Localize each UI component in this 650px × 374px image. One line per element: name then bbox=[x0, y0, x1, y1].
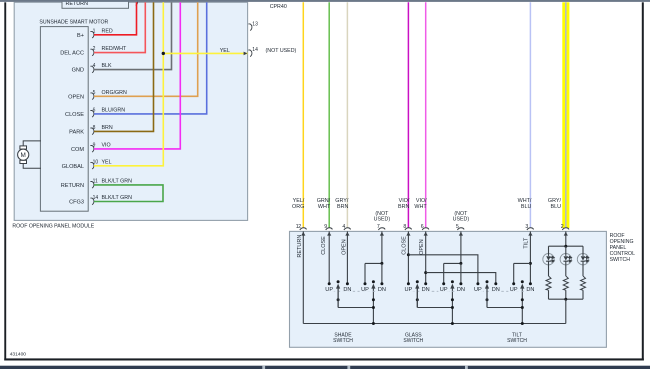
pin bracket pin 11 bbox=[90, 182, 94, 189]
pin 6 entry arrow bbox=[424, 232, 428, 236]
pin bracket switch pin 7 bbox=[378, 228, 385, 230]
wire ORG/GRN pin 5 bbox=[94, 2, 198, 96]
node shade bar junction bbox=[372, 306, 375, 309]
led top rail bbox=[549, 245, 584, 247]
svg-text:USED): USED) bbox=[453, 216, 470, 222]
svg-text:13: 13 bbox=[252, 21, 258, 27]
svg-text:RED: RED bbox=[102, 28, 113, 34]
page border bottom bbox=[4, 358, 644, 360]
svg-text:DN: DN bbox=[378, 287, 386, 293]
node tilt bar junction bbox=[521, 306, 524, 309]
svg-text:BLK/LT GRN: BLK/LT GRN bbox=[102, 178, 133, 184]
svg-text:GLOBAL: GLOBAL bbox=[62, 164, 84, 170]
wire glass UP2 riser bbox=[443, 263, 445, 283]
wire RED pin 1 bbox=[94, 2, 137, 35]
svg-text:M: M bbox=[21, 152, 26, 159]
svg-text:B+: B+ bbox=[77, 33, 84, 39]
svg-text:BLK: BLK bbox=[102, 63, 112, 69]
svg-text:UP: UP bbox=[510, 287, 518, 293]
svg-text:ORG/GRN: ORG/GRN bbox=[102, 90, 127, 96]
svg-text:COM: COM bbox=[71, 147, 84, 153]
contact label UP at x=408.4 bbox=[403, 286, 414, 292]
pin 4 entry arrow bbox=[345, 232, 349, 236]
wire BRN pin 8 bbox=[94, 2, 154, 131]
wire YEL pin 10 (GLOBAL) up bbox=[94, 2, 163, 166]
bottom bar separator at 465.0 bbox=[465, 366, 468, 369]
wire shade UP2 riser bbox=[364, 263, 366, 283]
svg-text:CLOSE: CLOSE bbox=[65, 112, 84, 118]
wire motor top to module bbox=[23, 141, 41, 146]
glass pole2 pole bottom dot bbox=[451, 298, 454, 301]
wire glass DN2 drop bbox=[460, 263, 462, 283]
tilt pole2 pole arm arrow bbox=[520, 284, 524, 289]
pin bracket switch pin 12 bbox=[300, 228, 307, 230]
wire GRN/WHT to switch pin 9 bbox=[328, 2, 330, 228]
svg-text:OPEN: OPEN bbox=[341, 239, 347, 255]
led bottom rail bbox=[549, 298, 584, 300]
svg-text:14: 14 bbox=[93, 195, 99, 201]
pin bracket switch pin 3 bbox=[527, 228, 534, 230]
svg-text:UP: UP bbox=[405, 287, 413, 293]
highlight on GRY/BLU wire bbox=[562, 2, 569, 228]
svg-text:DEL ACC: DEL ACC bbox=[60, 51, 84, 57]
svg-text:VIO: VIO bbox=[102, 142, 111, 148]
svg-text:RETURN: RETURN bbox=[61, 183, 84, 189]
glass pole1 UP contact dot bbox=[407, 282, 410, 285]
shade pole2 UP contact dot bbox=[364, 282, 367, 285]
pin 9 entry arrow bbox=[327, 232, 331, 236]
node led bottom junction bbox=[564, 298, 567, 301]
pin bracket switch pin 2 bbox=[562, 228, 569, 230]
pin bracket pin 14 CFG3 bbox=[90, 198, 94, 205]
svg-text:ROOF OPENING PANEL MODULE: ROOF OPENING PANEL MODULE bbox=[12, 223, 94, 229]
svg-text:PARK: PARK bbox=[69, 129, 84, 135]
resistor R2 bbox=[563, 276, 568, 290]
shade pole1 UP contact dot bbox=[328, 282, 331, 285]
tilt pole1 UP contact dot bbox=[476, 282, 479, 285]
contact label DN at x=347.4 bbox=[342, 286, 353, 292]
contact label DN at x=381.9 bbox=[377, 286, 388, 292]
wire glass pole1 to bar bbox=[416, 288, 418, 308]
shade pole1 pole bottom dot bbox=[337, 298, 340, 301]
svg-text:4: 4 bbox=[93, 63, 96, 69]
svg-text:2: 2 bbox=[93, 46, 96, 52]
glass mechanical linkage dashed bbox=[412, 290, 458, 292]
svg-text:10: 10 bbox=[93, 159, 99, 165]
resistor R1 bbox=[546, 276, 551, 290]
tilt pole1 pole pivot dot bbox=[486, 280, 489, 283]
wire glass to bus bbox=[451, 308, 453, 324]
glass pole pair bottom bar bbox=[417, 307, 452, 309]
shade mechanical linkage dashed bbox=[333, 290, 379, 292]
wire tilt pole1 to bar bbox=[486, 288, 488, 308]
svg-text:431400: 431400 bbox=[10, 352, 27, 358]
tilt mechanical linkage dashed bbox=[481, 290, 527, 292]
pin bracket pin 2 bbox=[90, 49, 94, 56]
pin bracket pin 5 bbox=[90, 93, 94, 100]
tilt pole1 pole arm arrow bbox=[485, 284, 489, 289]
svg-text:8: 8 bbox=[93, 125, 96, 131]
sunshade smart motor box bbox=[40, 27, 88, 212]
contact label DN at x=530.4 bbox=[525, 286, 536, 292]
svg-text:OPEN: OPEN bbox=[419, 239, 425, 255]
pin bracket switch pin 5 bbox=[457, 228, 464, 230]
wire pin 9 internal to shade UP1 bbox=[328, 231, 330, 283]
glass pole1 pole arm arrow bbox=[415, 284, 419, 289]
contact label UP at x=513.7 bbox=[508, 286, 519, 292]
wire pin 5 internal down bbox=[460, 231, 462, 263]
svg-text:SWITCH: SWITCH bbox=[333, 338, 353, 344]
wire BLU/GRN pin 6 bbox=[94, 2, 207, 114]
svg-text:OPEN: OPEN bbox=[68, 94, 84, 100]
roof opening panel control switch box bbox=[290, 231, 607, 347]
svg-text:CLOSE: CLOSE bbox=[321, 236, 327, 255]
contact label DN at x=460.9 bbox=[456, 286, 467, 292]
wire VIO pin 9 bbox=[94, 2, 180, 149]
svg-text:UP: UP bbox=[474, 287, 482, 293]
LED D3 indicator bbox=[577, 246, 588, 276]
pin bracket pin 9 bbox=[90, 146, 94, 153]
wire led block to bus bbox=[565, 299, 567, 323]
wire VIO/BRN to switch pin 8 bbox=[407, 2, 409, 228]
pin bracket switch pin 9 bbox=[326, 228, 333, 230]
node glass bar junction bbox=[451, 306, 454, 309]
svg-text:DN: DN bbox=[422, 287, 430, 293]
wire tilt to bus bbox=[521, 308, 523, 324]
svg-text:DN: DN bbox=[343, 287, 351, 293]
tilt pole2 pole pivot dot bbox=[521, 280, 524, 283]
LED D2 indicator bbox=[560, 246, 571, 276]
wire WHT/BLU to switch pin 3 bbox=[529, 2, 531, 228]
wire pin 6 internal to glass DN1 bbox=[425, 231, 427, 283]
svg-text:WHT: WHT bbox=[414, 204, 427, 210]
svg-text:SUNSHADE SMART MOTOR: SUNSHADE SMART MOTOR bbox=[39, 20, 108, 26]
shade pole1 pole arm arrow bbox=[336, 284, 340, 289]
wire YEL/ORG to switch pin 12 bbox=[302, 2, 304, 228]
svg-text:11: 11 bbox=[93, 178, 98, 184]
wire BLK pin 4 bbox=[94, 2, 172, 69]
page border right bbox=[642, 2, 644, 360]
svg-text:RETURN: RETURN bbox=[297, 235, 303, 258]
shade pole2 pole bottom dot bbox=[372, 298, 375, 301]
wire pin 7 internal down bbox=[381, 231, 383, 263]
glass pole2 UP contact dot bbox=[442, 282, 445, 285]
pin bracket pin 13 bbox=[248, 24, 252, 31]
svg-text:SWITCH: SWITCH bbox=[507, 338, 527, 344]
bottom table header bar bbox=[0, 366, 650, 369]
page border left bbox=[4, 2, 6, 360]
wire pin 2 internal down bbox=[565, 231, 567, 246]
wire GRY/BRN to switch pin 4 bbox=[346, 2, 348, 228]
svg-text:DN: DN bbox=[526, 287, 534, 293]
svg-text:ORG: ORG bbox=[292, 204, 304, 210]
resistor R3 bbox=[581, 276, 586, 290]
svg-text:CFG3: CFG3 bbox=[69, 200, 84, 206]
pin 2 entry arrow bbox=[564, 232, 568, 236]
node shade pin7 junction bbox=[380, 262, 383, 265]
tilt pole2 DN contact dot bbox=[529, 282, 532, 285]
wire pin 8 internal to glass UP1 bbox=[407, 231, 409, 283]
pin bracket switch pin 6 bbox=[422, 228, 429, 230]
bottom bar separator at 262.3 bbox=[262, 366, 265, 369]
pin bracket switch pin 8 bbox=[405, 228, 412, 230]
glass pole1 pole bottom dot bbox=[416, 298, 419, 301]
wire shade DN2 drop bbox=[381, 263, 383, 283]
wire shade pin7 branch to UP2 bbox=[365, 262, 382, 264]
shade pole1 pole pivot dot bbox=[337, 280, 340, 283]
svg-text:(NOT USED): (NOT USED) bbox=[266, 48, 297, 54]
wire return bus bbox=[303, 323, 566, 325]
contact label UP at x=365.0 bbox=[360, 286, 371, 292]
glass pole2 pole pivot dot bbox=[451, 280, 454, 283]
wire pin 4 internal to shade DN1 bbox=[346, 231, 348, 283]
contact label UP at x=477.9 bbox=[473, 286, 484, 292]
node glass bus junction bbox=[451, 322, 454, 325]
wire YEL branch to pin 14 CPR40 bbox=[163, 52, 247, 54]
pin 3 entry arrow bbox=[528, 232, 532, 236]
roof opening panel module box bbox=[14, 2, 247, 220]
contact label DN at x=425.7 bbox=[420, 286, 431, 292]
svg-text:SWITCH: SWITCH bbox=[610, 257, 631, 263]
wire shade pole1 to bar bbox=[337, 288, 339, 308]
svg-text:GND: GND bbox=[72, 68, 84, 74]
pin bracket switch pin 4 bbox=[344, 228, 351, 230]
svg-text:BLU: BLU bbox=[551, 204, 562, 210]
glass pole2 pole arm arrow bbox=[450, 284, 454, 289]
pin 8 entry arrow bbox=[406, 232, 410, 236]
node glass pin5 junction bbox=[459, 262, 462, 265]
top scrollbar strip bbox=[0, 0, 650, 2]
wire glass pin5 branch to UP2 bbox=[444, 262, 461, 264]
svg-text:9: 9 bbox=[93, 142, 96, 148]
svg-text:DN: DN bbox=[492, 287, 500, 293]
svg-text:SWITCH: SWITCH bbox=[403, 338, 423, 344]
wire VIO/WHT to switch pin 6 bbox=[425, 2, 427, 228]
svg-text:DN: DN bbox=[457, 287, 465, 293]
pin bracket pin 1 bbox=[90, 31, 94, 38]
node led rail junction bbox=[564, 245, 567, 248]
node tilt bus junction bbox=[521, 322, 524, 325]
pin bracket pin 4 bbox=[90, 66, 94, 73]
pin 5 entry arrow bbox=[459, 232, 463, 236]
contact label DN at x=495.8 bbox=[490, 286, 501, 292]
svg-text:USED): USED) bbox=[374, 216, 391, 222]
svg-text:WHT: WHT bbox=[318, 204, 331, 210]
svg-text:BLU/GRN: BLU/GRN bbox=[102, 107, 126, 113]
wire shade to bus bbox=[372, 308, 374, 324]
svg-text:BLK/LT GRN: BLK/LT GRN bbox=[102, 195, 133, 201]
shade pole pair bottom bar bbox=[338, 307, 373, 309]
pin bracket pin 14 CPR40 bbox=[248, 50, 252, 57]
pin 12 entry arrow bbox=[301, 232, 305, 236]
svg-text:1: 1 bbox=[93, 28, 96, 34]
svg-text:UP: UP bbox=[361, 287, 369, 293]
pin bracket pin 10 bbox=[90, 162, 94, 169]
svg-text:YEL: YEL bbox=[220, 48, 230, 54]
svg-text:BRN: BRN bbox=[102, 125, 113, 131]
svg-text:CLOSE: CLOSE bbox=[401, 236, 407, 255]
wire pin 3 internal down bbox=[529, 231, 531, 283]
svg-text:14: 14 bbox=[252, 47, 258, 53]
wire tilt UP2 riser bbox=[513, 263, 515, 283]
wire tilt pin3 branch to UP2 bbox=[514, 262, 531, 264]
tilt pole1 DN contact dot bbox=[494, 282, 497, 285]
svg-text:BRN: BRN bbox=[398, 204, 409, 210]
pin bracket of cut-off RETURN pin bbox=[134, 0, 138, 5]
contact label UP at x=443.7 bbox=[438, 286, 449, 292]
svg-text:TILT: TILT bbox=[524, 237, 530, 249]
svg-text:BLU: BLU bbox=[521, 204, 532, 210]
motor M1 sunshade motor bbox=[18, 146, 29, 164]
node shade bus junction bbox=[372, 322, 375, 325]
tilt pole2 UP contact dot bbox=[512, 282, 515, 285]
shade pole1 DN contact dot bbox=[346, 282, 349, 285]
glass pole1 DN contact dot bbox=[424, 282, 427, 285]
tilt pole pair bottom bar bbox=[487, 307, 522, 309]
wire glass pin6 branch to tilt DN1 bbox=[426, 273, 496, 284]
node glass pin6 junction bbox=[424, 271, 427, 274]
wire RETURN internal down bbox=[302, 231, 304, 323]
shade pole2 pole pivot dot bbox=[372, 280, 375, 283]
pin bracket pin 8 bbox=[90, 128, 94, 135]
svg-text:YEL: YEL bbox=[102, 159, 112, 165]
svg-text:CPR40: CPR40 bbox=[270, 4, 287, 10]
wire RED/WHT pin 2 bbox=[94, 2, 145, 52]
junction node yellow YEL bbox=[162, 52, 165, 55]
svg-text:BRN: BRN bbox=[337, 204, 348, 210]
wire GRY/BLU to switch pin 2 bbox=[565, 2, 567, 228]
glass pole1 pole pivot dot bbox=[416, 280, 419, 283]
svg-text:5: 5 bbox=[93, 90, 96, 96]
glass pole2 DN contact dot bbox=[459, 282, 462, 285]
contact label UP at x=329.2 bbox=[324, 286, 335, 292]
wire motor bottom to module bbox=[23, 164, 41, 169]
shade pole2 pole arm arrow bbox=[371, 284, 375, 289]
tilt pole1 pole bottom dot bbox=[486, 298, 489, 301]
shade pole2 DN contact dot bbox=[380, 282, 383, 285]
tilt pole2 pole bottom dot bbox=[521, 298, 524, 301]
svg-text:RETURN: RETURN bbox=[66, 1, 89, 7]
svg-text:RED/WHT: RED/WHT bbox=[102, 46, 127, 52]
bottom bar separator at 347.4 bbox=[347, 366, 350, 369]
wire BLK/LT GRN loop RETURN to CFG3 bbox=[94, 185, 163, 202]
svg-text:UP: UP bbox=[440, 287, 448, 293]
wire glass pin8 branch to tilt UP1 bbox=[408, 255, 478, 284]
svg-text:6: 6 bbox=[93, 107, 96, 113]
node tilt pin3 junction bbox=[529, 262, 532, 265]
svg-text:UP: UP bbox=[325, 287, 333, 293]
cut-off connector box at top with RETURN label bbox=[62, 0, 129, 8]
LED D1 indicator bbox=[543, 246, 554, 276]
pin 7 entry arrow bbox=[380, 232, 384, 236]
node glass pin8 junction bbox=[407, 253, 410, 256]
pin bracket pin 6 bbox=[90, 111, 94, 118]
